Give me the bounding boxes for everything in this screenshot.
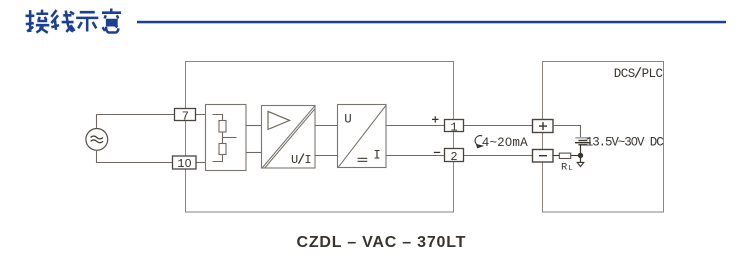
svg-text:7: 7 bbox=[182, 109, 189, 123]
wire: DCS + to battery bbox=[553, 126, 581, 138]
current direction arrow bbox=[475, 136, 484, 149]
svg-text:2: 2 bbox=[450, 150, 457, 164]
wire: terminal 1 to DCS + bbox=[464, 125, 533, 127]
amplifier block U/I bbox=[262, 106, 316, 169]
label DCS/PLC bbox=[614, 67, 663, 81]
wire: U=I to terminal 1 bbox=[386, 125, 444, 127]
svg-text:U: U bbox=[291, 153, 298, 167]
terminal 2 bbox=[445, 149, 464, 164]
terminal 10 bbox=[173, 156, 197, 171]
terminal 7 bbox=[175, 109, 196, 124]
wire: mid tap bbox=[223, 137, 237, 139]
wire: block1 inner top bbox=[213, 115, 223, 121]
title rule bbox=[137, 21, 726, 24]
svg-text:I: I bbox=[373, 149, 381, 163]
transmitter outer box bbox=[186, 62, 454, 213]
label U/I bbox=[291, 153, 311, 167]
svg-text:PLC: PLC bbox=[642, 67, 663, 81]
wire: AC source top to terminal 7 bbox=[97, 115, 176, 128]
wire: battery to junction bbox=[580, 146, 582, 156]
svg-text:10: 10 bbox=[177, 157, 191, 171]
wire: block1 inner bottom bbox=[213, 155, 223, 162]
wire: terminal 10 to input block bbox=[196, 162, 206, 164]
input network block bbox=[206, 105, 247, 171]
线 bbox=[51, 10, 59, 30]
wire: terminal 2 to DCS - bbox=[464, 155, 533, 157]
minus sign at terminal 2 bbox=[434, 151, 440, 153]
junction node bbox=[578, 153, 583, 158]
svg-text:I: I bbox=[304, 153, 311, 167]
resistor R2 bbox=[219, 144, 226, 155]
wire: AC source bottom to terminal 10 bbox=[97, 151, 173, 163]
title 接线示意 (hand-drawn strokes, blue) bbox=[26, 9, 122, 33]
svg-text:L: L bbox=[568, 165, 573, 173]
svg-text:U: U bbox=[344, 113, 352, 127]
equals sign bbox=[358, 158, 368, 161]
wire: terminal 7 to input block bbox=[196, 114, 214, 116]
svg-text:13.5V~30V DC: 13.5V~30V DC bbox=[586, 136, 663, 150]
ground bbox=[577, 158, 584, 167]
意 bbox=[102, 9, 121, 19]
op-amp triangle bbox=[268, 111, 290, 129]
DCS terminal + bbox=[533, 120, 554, 133]
svg-text:R: R bbox=[561, 161, 568, 173]
wire: block1 to amp lower bbox=[246, 152, 262, 154]
wire: amp to U=I upper bbox=[315, 125, 338, 127]
wire: amp to U=I lower bbox=[315, 155, 338, 157]
DCS/PLC box bbox=[543, 62, 664, 213]
svg-text:DCS: DCS bbox=[614, 67, 635, 81]
接 bbox=[26, 10, 35, 32]
示 bbox=[76, 12, 98, 31]
wire: RL to junction bbox=[571, 155, 581, 157]
AC source G1 bbox=[86, 129, 108, 151]
svg-text:1: 1 bbox=[450, 120, 457, 134]
wire: DCS - to RL bbox=[553, 155, 559, 157]
plus sign at terminal 1 bbox=[432, 116, 439, 122]
battery B1 bbox=[575, 138, 591, 145]
svg-text:4~20mA: 4~20mA bbox=[482, 136, 528, 150]
wire: U=I to terminal 2 bbox=[386, 155, 445, 157]
DCS terminal - bbox=[533, 150, 554, 163]
U/I converter block bbox=[338, 105, 387, 168]
resistor R1 bbox=[219, 121, 226, 133]
wire: between resistors bbox=[222, 132, 224, 144]
terminal 1 bbox=[445, 120, 464, 135]
zero-dot patches bbox=[187, 140, 636, 165]
wire: block1 to amp upper bbox=[246, 125, 262, 127]
resistor RL bbox=[559, 153, 570, 158]
svg-text:CZDL – VAC – 370LT: CZDL – VAC – 370LT bbox=[297, 234, 467, 251]
